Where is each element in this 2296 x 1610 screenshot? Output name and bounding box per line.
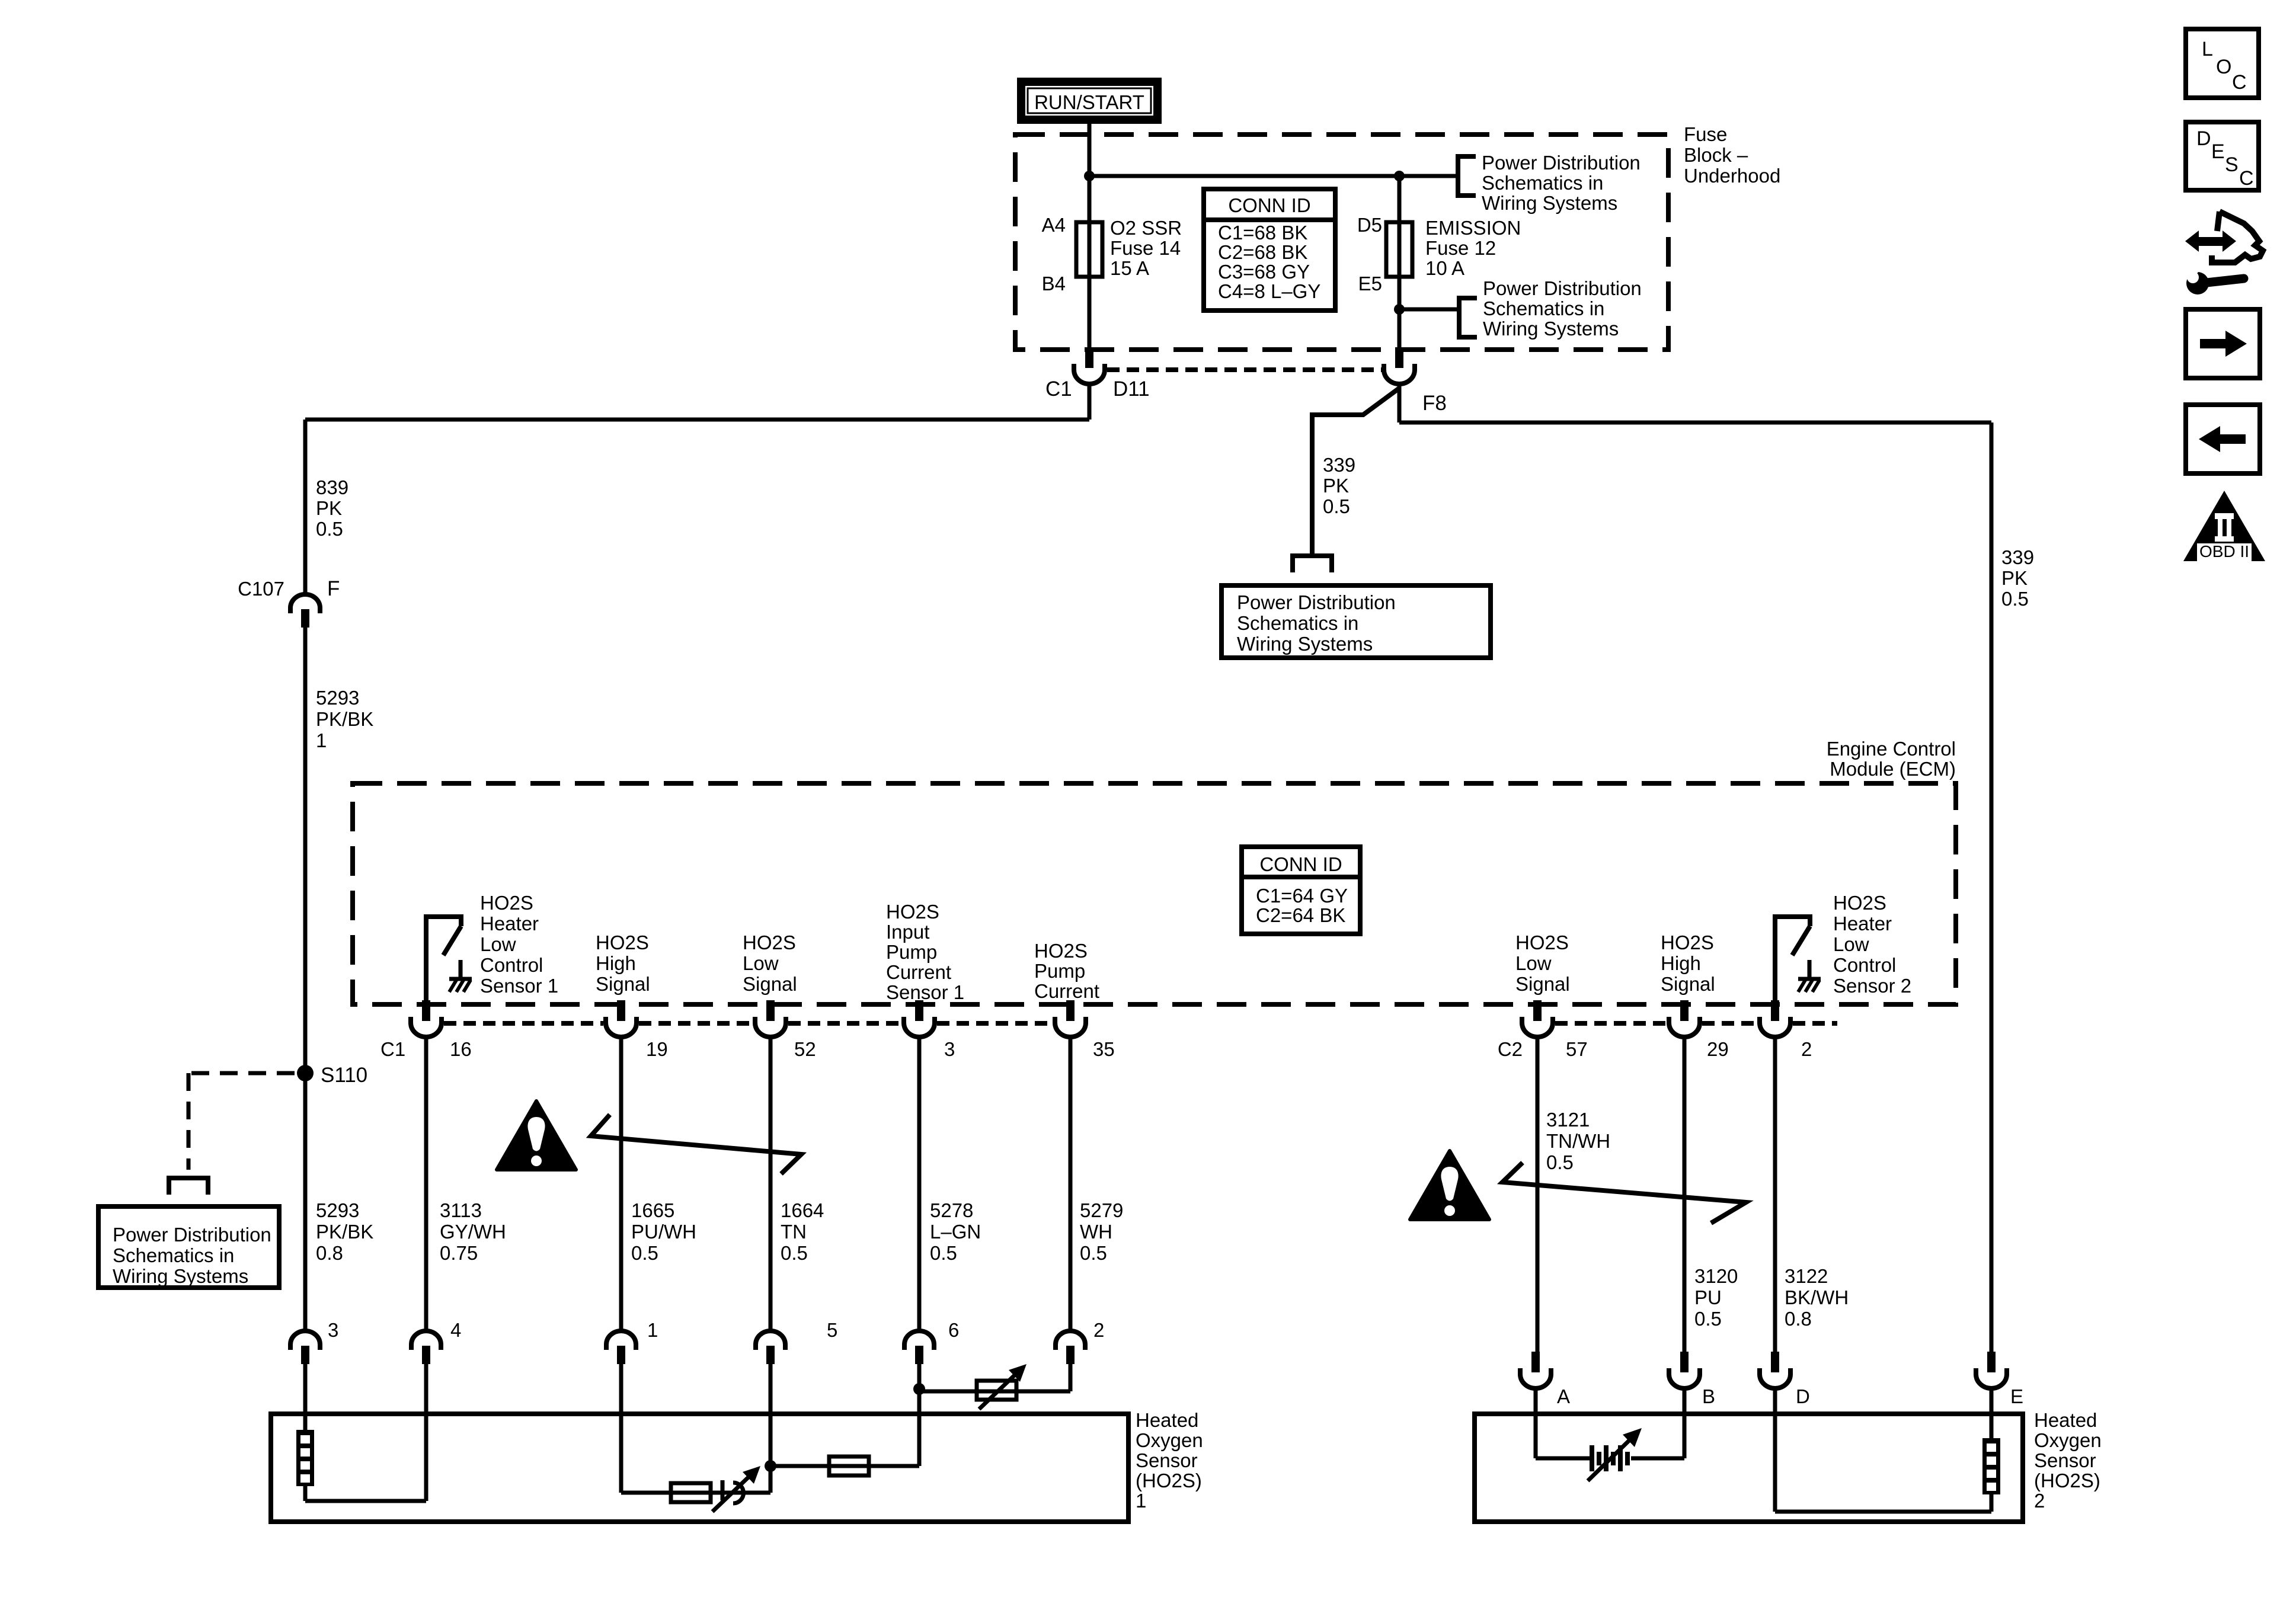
svg-text:3113: 3113 xyxy=(440,1199,482,1221)
svg-text:0.75: 0.75 xyxy=(440,1242,478,1264)
svg-text:Control: Control xyxy=(1833,954,1896,976)
svg-text:Heater: Heater xyxy=(480,913,539,934)
svg-text:3121: 3121 xyxy=(1546,1109,1590,1131)
svg-text:Heater: Heater xyxy=(1833,913,1892,934)
svg-text:HO2S: HO2S xyxy=(886,901,939,923)
svg-text:C1=68 BK: C1=68 BK xyxy=(1218,222,1307,244)
svg-text:GY/WH: GY/WH xyxy=(440,1221,506,1243)
svg-text:0.5: 0.5 xyxy=(1323,495,1350,517)
svg-text:Pump: Pump xyxy=(886,941,937,963)
svg-text:O: O xyxy=(2216,56,2231,78)
svg-text:Schematics in: Schematics in xyxy=(113,1244,234,1266)
svg-text:Wiring Systems: Wiring Systems xyxy=(1237,633,1373,655)
svg-text:High: High xyxy=(1661,952,1701,974)
svg-text:16: 16 xyxy=(450,1038,472,1060)
svg-text:0.5: 0.5 xyxy=(1080,1242,1107,1264)
svg-text:D: D xyxy=(1796,1385,1810,1407)
svg-text:Control: Control xyxy=(480,954,543,976)
svg-text:6: 6 xyxy=(948,1319,959,1341)
svg-text:CONN ID: CONN ID xyxy=(1259,853,1342,875)
svg-text:5293: 5293 xyxy=(316,687,359,709)
svg-text:Sensor: Sensor xyxy=(1136,1449,1198,1471)
svg-text:CONN ID: CONN ID xyxy=(1228,194,1310,216)
svg-text:2: 2 xyxy=(2034,1490,2045,1512)
svg-text:Heated: Heated xyxy=(1136,1409,1198,1431)
svg-text:Heated: Heated xyxy=(2034,1409,2097,1431)
svg-text:C: C xyxy=(2239,167,2254,190)
svg-text:B4: B4 xyxy=(1042,273,1066,295)
svg-text:PU/WH: PU/WH xyxy=(631,1221,696,1243)
svg-text:E5: E5 xyxy=(1358,273,1382,295)
svg-text:339: 339 xyxy=(2001,546,2034,568)
svg-text:Wiring Systems: Wiring Systems xyxy=(113,1265,248,1287)
svg-text:52: 52 xyxy=(794,1038,816,1060)
svg-text:C2=64 BK: C2=64 BK xyxy=(1256,904,1345,926)
svg-text:C1=64 GY: C1=64 GY xyxy=(1256,885,1348,907)
svg-text:(HO2S): (HO2S) xyxy=(2034,1470,2100,1491)
svg-text:Schematics in: Schematics in xyxy=(1483,297,1604,319)
svg-text:29: 29 xyxy=(1707,1038,1729,1060)
svg-text:B: B xyxy=(1702,1385,1715,1407)
svg-text:Low: Low xyxy=(743,952,779,974)
svg-text:C: C xyxy=(2232,71,2247,94)
svg-text:A: A xyxy=(1557,1385,1570,1407)
svg-text:S: S xyxy=(2225,153,2239,176)
svg-text:Engine Control: Engine Control xyxy=(1827,738,1956,760)
svg-text:E: E xyxy=(2010,1385,2023,1407)
svg-text:Sensor 2: Sensor 2 xyxy=(1833,975,1911,997)
svg-text:A4: A4 xyxy=(1042,214,1066,236)
svg-text:Signal: Signal xyxy=(1515,973,1570,995)
svg-text:(HO2S): (HO2S) xyxy=(1136,1470,1202,1491)
svg-text:HO2S: HO2S xyxy=(1833,892,1886,914)
svg-text:2: 2 xyxy=(1093,1319,1104,1341)
svg-text:Block –: Block – xyxy=(1684,144,1748,166)
svg-text:Low: Low xyxy=(480,933,516,955)
svg-text:0.5: 0.5 xyxy=(316,518,343,540)
svg-text:HO2S: HO2S xyxy=(480,892,533,914)
svg-text:C2=68 BK: C2=68 BK xyxy=(1218,241,1307,263)
svg-text:TN: TN xyxy=(781,1221,807,1243)
svg-text:HO2S: HO2S xyxy=(1034,940,1088,962)
svg-text:2: 2 xyxy=(1801,1038,1812,1060)
svg-text:15 A: 15 A xyxy=(1110,257,1149,279)
svg-text:Module (ECM): Module (ECM) xyxy=(1830,758,1956,780)
svg-text:C1: C1 xyxy=(380,1038,405,1060)
svg-text:C1: C1 xyxy=(1045,377,1072,401)
svg-text:TN/WH: TN/WH xyxy=(1546,1130,1610,1152)
svg-text:3: 3 xyxy=(328,1319,338,1341)
svg-text:PK: PK xyxy=(1323,475,1349,497)
svg-text:0.8: 0.8 xyxy=(1785,1308,1812,1330)
svg-text:Input: Input xyxy=(886,921,929,943)
svg-text:PK: PK xyxy=(2001,567,2028,589)
svg-text:1: 1 xyxy=(1136,1490,1146,1512)
svg-text:PK: PK xyxy=(316,497,342,519)
svg-text:Power Distribution: Power Distribution xyxy=(1483,277,1642,299)
svg-text:L–GN: L–GN xyxy=(930,1221,981,1243)
svg-text:BK/WH: BK/WH xyxy=(1785,1286,1849,1308)
svg-text:C2: C2 xyxy=(1498,1038,1523,1060)
svg-text:0.8: 0.8 xyxy=(316,1242,343,1264)
svg-text:PK/BK: PK/BK xyxy=(316,1221,373,1243)
svg-text:5278: 5278 xyxy=(930,1199,973,1221)
svg-text:19: 19 xyxy=(646,1038,668,1060)
svg-text:WH: WH xyxy=(1080,1221,1112,1243)
svg-text:0.5: 0.5 xyxy=(1694,1308,1722,1330)
svg-text:C3=68 GY: C3=68 GY xyxy=(1218,261,1310,283)
svg-text:0.5: 0.5 xyxy=(1546,1151,1574,1173)
svg-text:Signal: Signal xyxy=(1661,973,1715,995)
svg-text:Oxygen: Oxygen xyxy=(1136,1429,1203,1451)
svg-text:EMISSION: EMISSION xyxy=(1425,217,1521,239)
svg-text:3120: 3120 xyxy=(1694,1265,1738,1287)
svg-text:Power Distribution: Power Distribution xyxy=(113,1224,271,1246)
svg-text:C4=8 L–GY: C4=8 L–GY xyxy=(1218,280,1320,302)
svg-text:F: F xyxy=(327,577,340,600)
svg-text:0.5: 0.5 xyxy=(930,1242,957,1264)
svg-text:S110: S110 xyxy=(321,1064,367,1087)
svg-text:Low: Low xyxy=(1515,952,1552,974)
svg-text:D5: D5 xyxy=(1357,214,1382,236)
svg-text:Fuse 14: Fuse 14 xyxy=(1110,237,1181,259)
svg-text:C107: C107 xyxy=(238,578,284,600)
svg-text:35: 35 xyxy=(1093,1038,1115,1060)
svg-text:High: High xyxy=(596,952,636,974)
svg-text:Schematics in: Schematics in xyxy=(1482,172,1603,194)
svg-text:RUN/START: RUN/START xyxy=(1034,91,1144,113)
svg-text:0.5: 0.5 xyxy=(631,1242,658,1264)
svg-text:O2 SSR: O2 SSR xyxy=(1110,217,1182,239)
svg-text:D11: D11 xyxy=(1113,377,1150,401)
svg-text:10 A: 10 A xyxy=(1425,257,1464,279)
svg-text:839: 839 xyxy=(316,476,348,498)
svg-text:HO2S: HO2S xyxy=(1515,932,1569,953)
svg-text:1: 1 xyxy=(647,1319,658,1341)
svg-text:57: 57 xyxy=(1566,1038,1588,1060)
svg-text:E: E xyxy=(2211,140,2225,163)
svg-text:OBD II: OBD II xyxy=(2199,542,2249,561)
svg-text:Underhood: Underhood xyxy=(1684,165,1780,187)
svg-text:Pump: Pump xyxy=(1034,960,1085,982)
svg-text:Oxygen: Oxygen xyxy=(2034,1429,2102,1451)
svg-text:PK/BK: PK/BK xyxy=(316,708,373,730)
svg-text:1: 1 xyxy=(316,729,327,751)
svg-text:Power Distribution: Power Distribution xyxy=(1237,591,1396,613)
svg-text:Sensor 1: Sensor 1 xyxy=(480,975,558,997)
svg-text:339: 339 xyxy=(1323,454,1355,476)
svg-text:Wiring Systems: Wiring Systems xyxy=(1483,318,1619,340)
svg-text:Wiring Systems: Wiring Systems xyxy=(1482,192,1617,214)
svg-text:1665: 1665 xyxy=(631,1199,674,1221)
svg-text:5279: 5279 xyxy=(1080,1199,1123,1221)
svg-text:Low: Low xyxy=(1833,933,1869,955)
svg-text:0.5: 0.5 xyxy=(781,1242,808,1264)
svg-text:Sensor: Sensor xyxy=(2034,1449,2096,1471)
svg-text:L: L xyxy=(2202,38,2213,60)
svg-text:D: D xyxy=(2196,127,2211,150)
svg-text:4: 4 xyxy=(450,1319,461,1341)
svg-text:Fuse 12: Fuse 12 xyxy=(1425,237,1496,259)
svg-text:3: 3 xyxy=(944,1038,955,1060)
svg-text:0.5: 0.5 xyxy=(2001,588,2029,610)
svg-text:Current: Current xyxy=(886,961,951,983)
svg-text:F8: F8 xyxy=(1422,392,1447,415)
svg-text:Current: Current xyxy=(1034,980,1099,1002)
svg-text:HO2S: HO2S xyxy=(1661,932,1714,953)
svg-text:1664: 1664 xyxy=(781,1199,824,1221)
svg-text:5293: 5293 xyxy=(316,1199,359,1221)
svg-text:HO2S: HO2S xyxy=(596,932,649,953)
svg-text:Signal: Signal xyxy=(743,973,797,995)
svg-text:Sensor 1: Sensor 1 xyxy=(886,981,964,1003)
svg-text:Signal: Signal xyxy=(596,973,650,995)
svg-text:5: 5 xyxy=(827,1319,837,1341)
svg-text:HO2S: HO2S xyxy=(743,932,796,953)
svg-text:PU: PU xyxy=(1694,1286,1722,1308)
svg-text:Power Distribution: Power Distribution xyxy=(1482,152,1641,174)
svg-text:Schematics in: Schematics in xyxy=(1237,612,1358,634)
svg-text:Fuse: Fuse xyxy=(1684,123,1727,145)
svg-text:3122: 3122 xyxy=(1785,1265,1828,1287)
